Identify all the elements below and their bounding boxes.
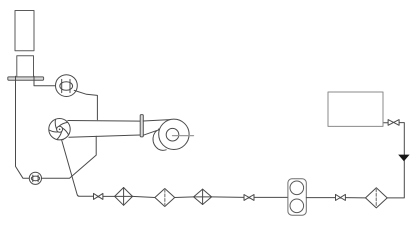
blower volute curl [143, 130, 166, 150]
filter F1 diamond [115, 188, 133, 206]
bottom pipe left run [103, 195, 115, 197]
wire P1 down to rod top [74, 90, 97, 119]
valve V1 [94, 193, 103, 199]
filter F4 diamond dashed [366, 188, 388, 208]
pivot wheel [49, 119, 70, 140]
pipe F1 to F2 [133, 196, 155, 197]
roller top circle [290, 181, 304, 195]
pipe V3 to F4 [345, 197, 365, 199]
wire vessel left outlet down-left side [16, 76, 30, 178]
volute hook notch [158, 129, 161, 130]
pipe F2 to F3 [175, 196, 194, 199]
wire P2 to riser under rod [42, 136, 97, 178]
pump P2 ellipse symbol [29, 172, 41, 184]
riser pipe right [387, 123, 404, 198]
blower hub circle [166, 128, 179, 141]
tank [328, 92, 383, 126]
blower casing circle [159, 119, 189, 149]
crank link second short line [61, 132, 63, 139]
roller bottom circle [290, 199, 304, 213]
stack lower section [17, 56, 34, 77]
rod duct bottom line [69, 135, 140, 137]
crank link diagonal to bottom pipe [59, 132, 93, 197]
filter F2 diamond dashed [155, 189, 175, 207]
duct flange bar [140, 115, 143, 137]
pipe device to V3 [306, 197, 335, 199]
roller device body [288, 179, 306, 215]
blower inlet top line [143, 120, 170, 121]
pipe V4 to tank [383, 122, 388, 124]
rod duct top line [68, 120, 140, 123]
valve V4 [388, 120, 399, 126]
filter F3 diamond [194, 189, 212, 204]
flow arrow down [398, 155, 409, 162]
valve V3 [336, 194, 346, 200]
valve V2 [244, 195, 254, 201]
blower shaft gray line [173, 135, 194, 137]
pump P1 circle symbol [56, 75, 78, 97]
flange plate [8, 77, 44, 80]
stack upper section [15, 11, 34, 51]
pipe V2 to roller device [254, 196, 288, 198]
pipe vessel to pump P1 [34, 76, 56, 86]
pipe F3 to V2 [212, 196, 244, 199]
